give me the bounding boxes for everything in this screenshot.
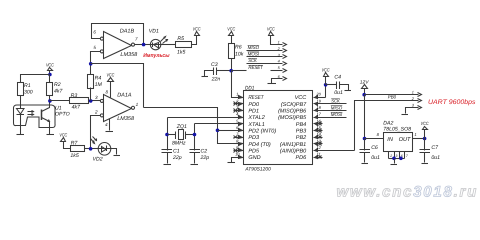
wire R2 to opto collector node [49, 96, 51, 101]
capacitor C6 [360, 139, 380, 161]
ground VD2 [114, 155, 121, 157]
connector ISP pin 5 [271, 66, 287, 72]
resistor R4 [88, 64, 103, 101]
pin 4 stub DD1 [234, 112, 244, 118]
svg-text:IN: IN [387, 137, 394, 143]
label MOSI [248, 52, 260, 57]
svg-text:VCC: VCC [267, 26, 275, 31]
wire MOSI net [247, 56, 283, 58]
label Impulsy [143, 53, 170, 59]
wire R7 to VD2 [85, 148, 99, 150]
ground C6 [362, 163, 369, 165]
label SCK [248, 58, 257, 63]
ground UART [402, 114, 409, 116]
pin 5 terminal [93, 45, 103, 53]
svg-text:2: 2 [389, 154, 392, 158]
svg-text:VCC: VCC [193, 26, 201, 31]
svg-text:www.cnc3018.ru: www.cnc3018.ru [337, 184, 479, 201]
node junction output-feedback [142, 43, 146, 47]
wire branch to PD2 [218, 130, 234, 132]
svg-text:0u1: 0u1 [334, 90, 343, 96]
svg-text:MISO: MISO [248, 45, 260, 50]
svg-text:20: 20 [315, 92, 321, 97]
svg-text:R3: R3 [71, 93, 78, 99]
pin 20 stub DD1 [314, 92, 326, 98]
svg-text:PD6: PD6 [295, 155, 307, 161]
resistor R3 [70, 93, 89, 111]
wire C4 to ground [340, 85, 349, 91]
wire VD2 to ground [111, 149, 117, 155]
svg-text:18: 18 [316, 105, 321, 110]
watermark www.cnc3018.ru [337, 184, 479, 201]
svg-text:1k5: 1k5 [177, 50, 185, 56]
label UART 9600bps [428, 99, 476, 106]
svg-text:R2: R2 [54, 82, 61, 88]
svg-text:5: 5 [93, 45, 96, 50]
resistor R2 [47, 75, 64, 96]
pin 2 terminal [94, 110, 103, 117]
wire XTAL1 to crystal [195, 124, 234, 151]
svg-text:AT90S1200: AT90S1200 [244, 167, 271, 173]
node junction VCC-C4 [324, 83, 328, 87]
svg-text:XTAL1: XTAL1 [247, 122, 264, 128]
pin 18 stub DD1 [314, 105, 347, 110]
connector ISP pin 6 GND [272, 75, 287, 84]
svg-text:7: 7 [135, 37, 138, 42]
power 12V [360, 80, 370, 95]
svg-text:R7: R7 [71, 141, 79, 147]
VD2 light arrows [91, 137, 97, 144]
svg-text:PD4 (T0): PD4 (T0) [248, 142, 270, 148]
svg-text:7: 7 [406, 154, 408, 158]
svg-text:C1: C1 [173, 149, 180, 155]
wire C7 to ground [424, 153, 426, 163]
svg-text:SCK: SCK [248, 58, 257, 63]
regulator DA2 78L05 [383, 121, 412, 152]
resistor R6 [229, 44, 244, 59]
label MISO [248, 45, 260, 50]
wire DA1B feedback pin6 to output [92, 24, 144, 45]
wire C3 to ground [205, 71, 214, 77]
svg-text:VCC: VCC [295, 95, 307, 101]
svg-text:VCC: VCC [46, 62, 54, 67]
svg-text:10k: 10k [235, 51, 244, 57]
pin 9 stub DD1 [234, 145, 244, 152]
svg-text:(AIN0)PB0: (AIN0)PB0 [280, 148, 307, 154]
connector UART pin 3 GND [406, 104, 422, 114]
resistor R5 [176, 36, 192, 55]
svg-text:4k7: 4k7 [72, 105, 81, 111]
node junction C6 [363, 137, 367, 141]
power VCC to DA1A pin 8 [105, 73, 114, 98]
power VCC at R7 [59, 133, 70, 149]
wire to DA2 IN [365, 132, 384, 138]
svg-text:VD1: VD1 [149, 29, 159, 35]
node junction VCC-R1-R2 [48, 73, 52, 77]
wire VD1 to R5 [161, 44, 176, 46]
wire R6 to reset node [231, 59, 233, 71]
svg-text:0u1: 0u1 [371, 155, 380, 161]
wire ZQ1 left [168, 134, 176, 136]
svg-text:XTAL2: XTAL2 [247, 115, 264, 121]
node junction 12V [362, 93, 366, 97]
label MISO right [331, 105, 343, 110]
ground C7 [422, 163, 429, 165]
svg-text:1: 1 [236, 92, 238, 97]
power VCC net above R1 R2 [46, 62, 54, 74]
pin 13 stub DD1 [314, 138, 323, 145]
wire SCK net right [314, 103, 347, 105]
ground C2 [191, 164, 199, 166]
svg-text:GND: GND [248, 155, 260, 161]
crystal ZQ1 [172, 124, 187, 146]
svg-text:DD1: DD1 [245, 86, 254, 92]
svg-text:C2: C2 [201, 149, 208, 155]
node junction C7 [423, 137, 427, 141]
wire MISO net [247, 50, 283, 52]
ground C3 [202, 76, 209, 78]
svg-text:OUT: OUT [399, 137, 411, 143]
wire MOSI net right [314, 117, 347, 119]
op-amp DA1B [104, 29, 139, 59]
DA2 bottom pins [389, 152, 408, 159]
pin 6 terminal [93, 29, 103, 40]
svg-text:(MISO)PB6: (MISO)PB6 [278, 108, 307, 114]
svg-text:LM358: LM358 [117, 116, 135, 122]
svg-text:PB0: PB0 [388, 94, 397, 100]
capacitor C1 [162, 149, 182, 162]
label MOSI right [331, 112, 343, 117]
wire crystal left leg [167, 118, 169, 151]
svg-text:4: 4 [278, 60, 280, 64]
pin 19 stub DD1 [314, 98, 347, 103]
connector ISP pin 2 [277, 47, 287, 53]
svg-text:VCC: VCC [59, 133, 67, 138]
svg-text:(AIN1)PB1: (AIN1)PB1 [280, 142, 306, 148]
ground DA2 [391, 164, 398, 166]
connector ISP pin 3 [278, 53, 287, 58]
wire DA1A output to PD2 PD4 [144, 108, 234, 144]
wire DA2 to ground [394, 159, 396, 164]
svg-text:VD2: VD2 [93, 157, 103, 163]
svg-text:8MHz: 8MHz [172, 140, 186, 146]
ground DA1A [106, 131, 114, 133]
svg-text:DA1B: DA1B [120, 29, 135, 35]
label RESET [248, 65, 263, 70]
pin 2 stub DD1 [234, 98, 244, 105]
wire DA2 OUT to VCC [413, 132, 425, 138]
pin 15 stub DD1 [314, 125, 323, 132]
power VCC at DA2 out [421, 121, 429, 138]
wire XTAL2 to crystal [168, 117, 234, 119]
power VCC at R6 [227, 26, 235, 43]
wire C6 to ground [364, 153, 366, 163]
pin 5 stub DD1 [234, 118, 244, 123]
svg-text:22p: 22p [200, 155, 210, 161]
svg-text:DA2: DA2 [383, 121, 393, 127]
power VCC at DD1 [322, 68, 330, 85]
DA1A pin 4 to ground [105, 119, 109, 131]
wire PB0 to connector [355, 101, 419, 151]
ground opto LED [17, 134, 25, 136]
wire R1 to opto LED anode [20, 96, 22, 109]
svg-text:3: 3 [95, 95, 98, 100]
svg-text:UART 9600bps: UART 9600bps [428, 99, 476, 106]
svg-text:3: 3 [396, 154, 398, 158]
pin 10 stub DD1 [234, 152, 244, 158]
pin 3 stub DD1 [234, 105, 244, 112]
wire 12V to DA2 IN [364, 95, 366, 139]
capacitor C4 [326, 75, 343, 96]
svg-text:1: 1 [412, 91, 414, 95]
optocoupler U1 body [14, 105, 70, 128]
VD1 light arrows [161, 37, 168, 44]
wire C2 to ground [194, 153, 196, 164]
ground C1 [164, 164, 172, 166]
svg-text:MISO: MISO [331, 105, 343, 110]
wire reset net to ISP [232, 70, 247, 72]
resistor R7 [70, 141, 84, 160]
svg-text:PB2: PB2 [296, 135, 306, 141]
svg-text:1: 1 [278, 40, 280, 44]
svg-text:DA1A: DA1A [117, 93, 132, 99]
op-amp DA1A [104, 93, 135, 122]
capacitor C7 [420, 139, 441, 161]
svg-text:PD0: PD0 [248, 102, 260, 108]
svg-text:1M: 1M [95, 82, 103, 88]
wire R3 to op-amp pin 3 [89, 95, 101, 100]
svg-text:C6: C6 [371, 145, 378, 151]
svg-text:12: 12 [316, 145, 321, 150]
svg-text:22n: 22n [211, 77, 221, 83]
svg-text:300: 300 [24, 89, 33, 95]
node junction pin5-R4 [89, 62, 93, 66]
wire 12V to connector [365, 94, 419, 96]
svg-text:LM358: LM358 [120, 52, 138, 58]
wire node to R3 [50, 100, 70, 102]
ground C4 [345, 90, 352, 92]
pin 16 stub DD1 [314, 118, 323, 125]
svg-text:R5: R5 [177, 36, 184, 42]
wire C1 to ground [167, 153, 169, 164]
wire MISO net right [314, 110, 347, 112]
svg-text:1: 1 [136, 102, 139, 107]
pin 6 stub DD1 [234, 125, 244, 130]
svg-text:VCC: VCC [227, 26, 235, 31]
pin 14 stub DD1 [314, 132, 323, 139]
node junction pin2-R7-VD2 [89, 147, 93, 151]
svg-text:OPTO: OPTO [55, 112, 70, 118]
svg-text:1: 1 [414, 132, 416, 137]
svg-text:(MOSI)PB5: (MOSI)PB5 [278, 115, 307, 121]
ground ISP [268, 83, 277, 85]
node junction DA2 gnd b [399, 157, 403, 161]
opto light arrows [28, 111, 34, 116]
svg-text:R1: R1 [24, 83, 31, 89]
svg-text:17: 17 [316, 112, 321, 117]
wire ZQ1 right [186, 134, 195, 136]
pin 1 stub DD1 [234, 92, 244, 98]
svg-text:1k5: 1k5 [70, 153, 78, 159]
opto phototransistor [42, 101, 50, 135]
node junction C1-ZQ1 [165, 133, 169, 137]
svg-text:C3: C3 [211, 62, 218, 68]
wire R5 to VCC [192, 36, 197, 45]
svg-text:PB3: PB3 [296, 128, 307, 134]
power VCC at R5 [193, 26, 201, 35]
wire DA1B output to VD1 [135, 44, 151, 46]
pin 1 terminal [131, 102, 138, 109]
svg-text:RESET: RESET [248, 95, 264, 101]
connector ISP pin 1 VCC [278, 40, 287, 46]
ground DD1 [228, 162, 236, 164]
wire opto LED cathode to ground [20, 115, 22, 135]
svg-text:Импульсы: Импульсы [143, 53, 170, 59]
svg-text:MOSI: MOSI [331, 112, 343, 117]
wire pin5 to lower node [91, 52, 101, 64]
svg-text:6: 6 [93, 29, 96, 34]
svg-text:R4: R4 [95, 75, 102, 81]
wire C3 to reset node [217, 70, 232, 72]
svg-text:PB4: PB4 [296, 122, 306, 128]
pin 3 terminal [100, 99, 103, 102]
svg-text:22p: 22p [172, 155, 182, 161]
wire pin2 to VD2 node [91, 116, 101, 149]
svg-text:R6: R6 [235, 44, 242, 50]
photodiode VD2 [93, 143, 112, 163]
svg-text:RESET: RESET [248, 65, 263, 70]
ground opto transistor [47, 134, 55, 136]
pin 12 stub DD1 [314, 145, 355, 150]
pin 11 stub DD1 [314, 152, 323, 159]
svg-text:PD3: PD3 [248, 135, 260, 141]
wire node to DA1A output column [91, 64, 144, 108]
svg-text:PD5: PD5 [248, 148, 260, 154]
connector ISP pin 4 [278, 60, 287, 66]
node junction C2-ZQ1 [193, 133, 197, 137]
svg-text:C4: C4 [334, 75, 341, 81]
wire reset node to MCU pin 1 [232, 71, 244, 98]
svg-text:PD2 (INT0): PD2 (INT0) [248, 128, 276, 134]
node junction DA2 gnd a [392, 157, 396, 161]
svg-text:0u1: 0u1 [431, 155, 440, 161]
label PB0 [388, 94, 397, 100]
svg-text:78L05_SO8: 78L05_SO8 [383, 127, 411, 133]
wire SCK net [247, 63, 283, 65]
node junction R2-collector-R3 [48, 99, 52, 103]
svg-text:VCC: VCC [106, 73, 114, 78]
power VCC at ISP [267, 26, 283, 44]
svg-text:MOSI: MOSI [248, 52, 260, 57]
svg-text:VCC: VCC [322, 68, 330, 73]
IC DD1 AT90S1200 [239, 86, 318, 173]
svg-text:12V: 12V [360, 80, 370, 85]
connector UART pin 1 [412, 91, 422, 97]
pin 7 stub DD1 [234, 132, 244, 139]
svg-text:(SCK)PB7: (SCK)PB7 [281, 102, 307, 108]
wire pin20 to VCC node [325, 85, 327, 98]
svg-text:2: 2 [94, 110, 98, 115]
svg-text:19: 19 [316, 98, 321, 103]
svg-text:SCK: SCK [331, 99, 340, 104]
svg-text:PD1: PD1 [248, 108, 259, 114]
node junction reset [229, 69, 233, 73]
node junction R3-R4-pin3 [89, 99, 93, 103]
label SCK right [331, 99, 340, 104]
capacitor C3 [211, 62, 221, 83]
connector UART pin 2 [411, 97, 422, 103]
svg-text:4k7: 4k7 [54, 88, 63, 94]
node junction PD2 branch [216, 129, 220, 133]
resistor R1 [18, 83, 33, 96]
wire VCC to R1 [21, 75, 50, 83]
svg-text:VCC: VCC [421, 121, 429, 126]
opto LED diode [17, 109, 25, 115]
svg-text:C7: C7 [431, 145, 439, 151]
svg-text:10: 10 [235, 152, 240, 157]
pin 17 stub DD1 [314, 112, 347, 118]
pin 7 terminal [131, 37, 138, 47]
capacitor C2 [190, 149, 210, 162]
wire GND pin to ground [232, 158, 234, 163]
pin 8 stub DD1 [234, 138, 244, 143]
LED VD1 [149, 29, 161, 50]
svg-text:ZQ1: ZQ1 [176, 124, 187, 130]
